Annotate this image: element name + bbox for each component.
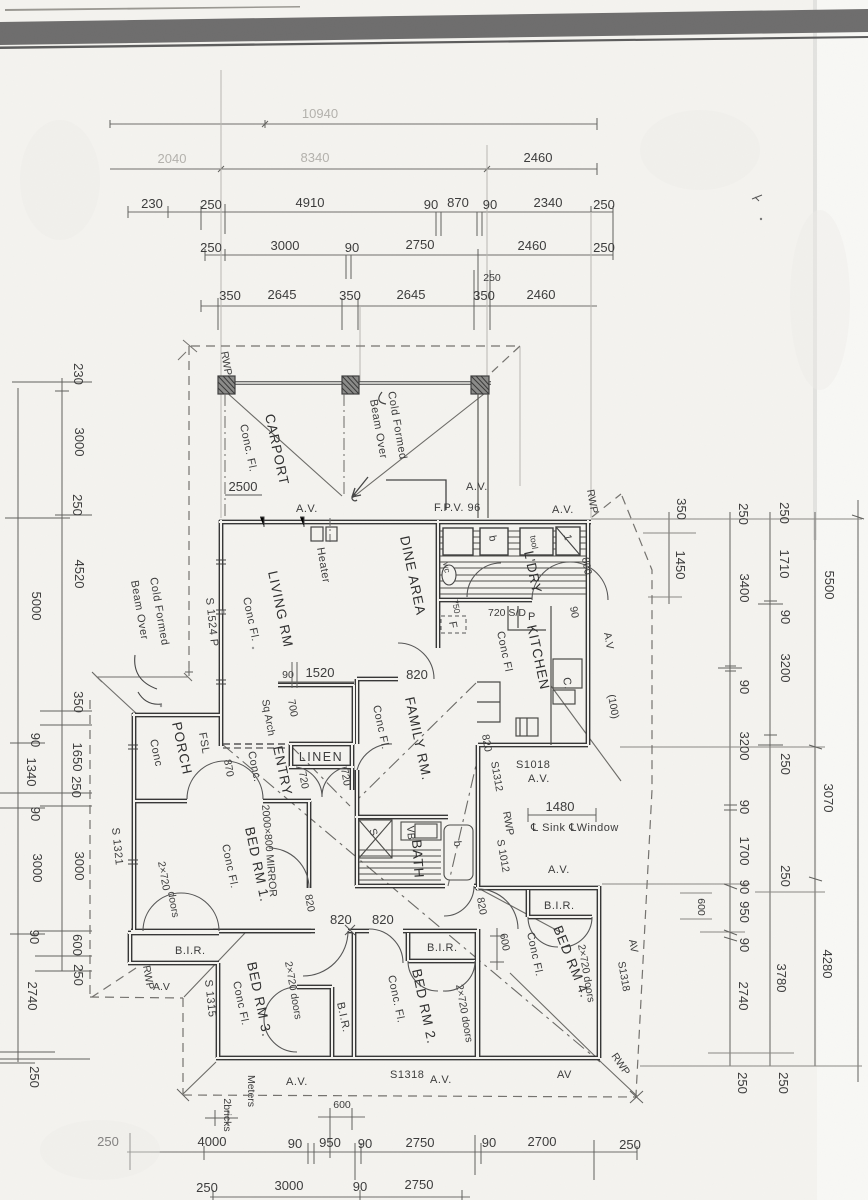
right ticks xyxy=(718,515,864,941)
roof left edge carport xyxy=(188,346,190,668)
bed2/bed4 divider xyxy=(475,931,480,1058)
kitchen right exterior wall xyxy=(586,520,591,745)
BIR bed1 top wall xyxy=(128,931,219,936)
kitchen right counter line xyxy=(550,606,552,745)
roof corner cut bottom-left of bed1 xyxy=(92,968,136,997)
right R2 chain labels xyxy=(735,503,752,1094)
left outer column labels xyxy=(24,592,45,1088)
beam note arrow xyxy=(379,392,386,404)
carport V right xyxy=(352,390,489,498)
bed4 BIR closet xyxy=(528,890,592,917)
roof left edge porch/bed1 xyxy=(89,700,91,997)
bed1 right wall xyxy=(307,801,312,888)
left outer dim column line xyxy=(17,388,19,1062)
porch roof top line xyxy=(93,673,192,714)
bed1 door arc xyxy=(269,848,309,888)
roof right edge xyxy=(622,496,652,1095)
bed2 BIR closet xyxy=(408,933,475,961)
dim row3 line xyxy=(128,211,613,213)
exterior wall below kitchen xyxy=(476,745,481,888)
kitchen bottom wall xyxy=(478,743,588,748)
bed2 door arc xyxy=(369,929,403,963)
sink under window xyxy=(553,690,575,704)
laundry wc xyxy=(442,565,456,585)
porch/bed1 left wall xyxy=(132,713,137,933)
faint long extension verticals from top dims xyxy=(221,70,591,518)
roof bottom edge xyxy=(183,1095,636,1097)
fold line xyxy=(813,0,817,540)
carport V left xyxy=(224,390,342,496)
bottom row1 line xyxy=(127,1151,637,1153)
bed4 door arc xyxy=(478,889,518,929)
BIR bed1 bottom wall xyxy=(128,961,219,966)
vanity VB xyxy=(401,822,441,840)
bed4 hip to corner xyxy=(510,973,602,1063)
carport slab edge dashdot xyxy=(225,394,344,518)
linen box xyxy=(289,744,354,790)
family rm diagonal xyxy=(357,683,476,800)
bed3 door arc xyxy=(303,931,348,976)
bath door arc xyxy=(444,886,474,916)
carport beam xyxy=(218,381,491,385)
hip bottom-left bed3 xyxy=(184,933,245,997)
laundry door arc xyxy=(532,562,608,600)
right col R5 boundary xyxy=(857,500,859,1082)
bed3 left wall xyxy=(216,963,221,1058)
laundry left wall xyxy=(436,520,441,600)
thin line above bar left xyxy=(5,6,300,11)
roof top edge xyxy=(191,345,520,347)
left inner dim column line xyxy=(61,378,63,971)
bed4 right exterior wall xyxy=(597,886,602,1058)
bottom row2 labels xyxy=(196,1177,433,1195)
bath left wall xyxy=(355,817,360,886)
brighter paper strip right of fold xyxy=(817,0,868,1200)
dim row1 line xyxy=(110,123,597,125)
dim row2 line xyxy=(110,168,597,170)
shower xyxy=(359,820,392,858)
bottom exterior wall bedrooms xyxy=(216,1056,600,1061)
kitchen right valley xyxy=(551,686,621,781)
exterior and interior walls dark pass xyxy=(128,520,600,1058)
fridge dashed box xyxy=(441,616,466,633)
bottom row2 line xyxy=(210,1196,470,1198)
bottom ticks xyxy=(130,1108,637,1200)
laundry cabinet boxes xyxy=(443,527,580,555)
laundry interior door arc xyxy=(467,563,501,597)
bed2 BIR doors arcs xyxy=(408,961,475,991)
stray scan marks xyxy=(752,195,762,201)
bed1 robe doors arcs xyxy=(143,893,219,931)
bed4 left wall xyxy=(476,888,481,1058)
family door arc from linen xyxy=(357,744,392,770)
living bottom nib wall xyxy=(278,683,354,688)
right col R4 xyxy=(814,512,816,1066)
right R3 chain labels xyxy=(774,502,793,1094)
stove box xyxy=(516,718,538,736)
right R4 chain labels xyxy=(820,571,837,979)
roof top-right corner diagonal xyxy=(492,346,520,372)
bottom row1 labels xyxy=(97,1134,641,1152)
bed1 top wall / porch bottom xyxy=(133,799,311,804)
left inner column labels xyxy=(69,363,87,986)
small 600 dim line xyxy=(318,1116,365,1118)
bath floor hatch xyxy=(359,850,441,880)
right col R3 xyxy=(769,512,771,1066)
bed4 BIR doors arcs xyxy=(528,917,592,947)
paper noise xyxy=(0,0,1,1)
hall diagonal xyxy=(448,748,480,886)
bed2/bed3 divider xyxy=(352,931,357,1058)
laundry tub diagonal xyxy=(556,527,580,555)
bed3 closet walls xyxy=(297,987,332,1058)
right block connector bars xyxy=(591,519,862,1066)
window sill ticks on left wall xyxy=(128,517,304,864)
linen doors arcs xyxy=(296,767,347,797)
thin line under bar xyxy=(0,36,868,49)
family left wall xyxy=(355,679,360,817)
scanner dark bar top xyxy=(0,9,868,45)
dine-family door arc xyxy=(398,643,434,679)
porch top wall xyxy=(132,713,221,718)
roof corner cross ticks xyxy=(92,668,643,1103)
valley linen corner xyxy=(289,744,350,806)
tub xyxy=(444,825,473,880)
roof outline step bottom-left xyxy=(90,997,183,998)
bed4 top wall xyxy=(476,886,600,891)
porch roof diagonal xyxy=(97,677,137,714)
carport right boundary lines xyxy=(478,394,488,518)
roof corner hatch marks xyxy=(178,340,197,360)
bed1 bottom wall xyxy=(131,929,311,934)
dim row4 line xyxy=(205,254,613,256)
living left wall xyxy=(219,520,224,746)
kitchen left upper wall xyxy=(436,600,441,648)
tick marks of top rows xyxy=(110,118,613,330)
bath top wall xyxy=(355,815,448,820)
hall bottom wall bed2/bed3 top xyxy=(213,929,477,934)
dim row5 line xyxy=(201,305,597,307)
bath bottom wall xyxy=(355,884,476,889)
cylinder C box xyxy=(553,659,582,688)
main valley entry to bed4 corner xyxy=(222,744,600,1062)
north arrow squiggle xyxy=(352,477,446,510)
entry front door arc xyxy=(187,761,263,799)
left columns tick bars xyxy=(0,382,92,1063)
laundry hatch shelves xyxy=(440,531,586,594)
kitchen counter top run xyxy=(508,606,546,630)
roof corner top-right of house xyxy=(592,494,621,517)
family top wall xyxy=(357,677,398,682)
house top wall xyxy=(219,520,591,525)
right col R2 xyxy=(729,512,731,1066)
entry-living dashed opening xyxy=(223,743,289,745)
right col R1 xyxy=(668,512,670,604)
kitchen bench island xyxy=(477,682,500,722)
heater flue dashdot xyxy=(329,518,331,545)
bed4 diagonal to BIR xyxy=(478,888,560,932)
carport posts xyxy=(218,376,489,394)
entry/family divider xyxy=(352,685,357,744)
bed3 closet doors arcs xyxy=(264,987,297,1052)
BIR bed1 left wall xyxy=(128,933,133,963)
walls paper core pass xyxy=(128,520,600,1058)
laundry bottom / kitchen top wall xyxy=(438,598,532,603)
